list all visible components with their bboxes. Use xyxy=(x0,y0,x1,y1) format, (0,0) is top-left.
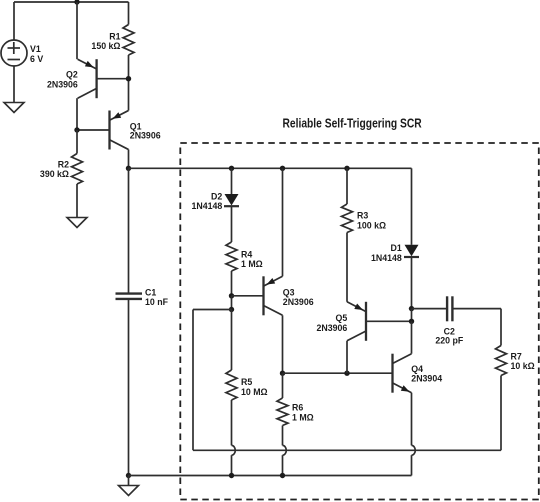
capacitor C2 xyxy=(447,296,452,321)
resistor R4 xyxy=(226,242,237,271)
diode D1 xyxy=(404,245,419,257)
label Q5 2N3906 xyxy=(316,313,347,333)
wire Q2 emitter lead xyxy=(76,2,78,59)
wire Q3 emitter lead xyxy=(282,168,284,276)
svg-text:R6: R6 xyxy=(292,403,303,413)
voltage source V1 xyxy=(1,40,27,66)
wire Q5 collector lead xyxy=(346,341,348,373)
svg-text:D1: D1 xyxy=(391,243,402,253)
label D1 1N4148 xyxy=(371,243,402,263)
svg-text:1 MΩ: 1 MΩ xyxy=(241,259,263,269)
svg-text:Q3: Q3 xyxy=(283,288,295,298)
node Q5 base junction xyxy=(409,319,414,324)
label Q1 2N3906 xyxy=(130,121,161,140)
node R6 top junction xyxy=(280,371,285,376)
svg-text:220 pF: 220 pF xyxy=(435,336,463,346)
label R7 10k xyxy=(511,352,535,372)
svg-text:R7: R7 xyxy=(511,352,522,362)
wire V1 top lead xyxy=(13,2,15,40)
transistor Q5 xyxy=(347,302,366,341)
node loop tap junction xyxy=(229,307,234,312)
transistor Q1 xyxy=(110,111,129,150)
node Q2 base junction xyxy=(126,76,131,81)
label Q4 2N3904 xyxy=(411,364,442,384)
label C1 10nF xyxy=(145,288,169,308)
svg-text:R3: R3 xyxy=(357,211,368,221)
node R5 ground junction xyxy=(229,473,234,478)
label R6 1M xyxy=(292,403,314,423)
label R1 150k xyxy=(91,32,120,52)
wire Q4 emitter to ground bus xyxy=(411,393,413,476)
wire R2 top lead xyxy=(76,130,78,154)
wire Q2 base to R1 node xyxy=(97,78,129,80)
wire R3 top lead xyxy=(346,168,348,204)
capacitor C1 xyxy=(116,294,143,299)
svg-text:R1: R1 xyxy=(109,32,120,42)
label Q2 2N3906 xyxy=(47,70,78,90)
label R5 10M xyxy=(241,377,268,397)
svg-text:1N4148: 1N4148 xyxy=(371,253,402,263)
svg-text:10 kΩ: 10 kΩ xyxy=(511,361,535,371)
wire C1 bottom lead xyxy=(128,300,130,476)
node bus D2 tap xyxy=(229,166,234,171)
svg-text:2N3906: 2N3906 xyxy=(316,323,347,333)
svg-text:390 kΩ: 390 kΩ xyxy=(40,169,69,179)
node bus Q3 tap xyxy=(280,166,285,171)
wire C2 left lead xyxy=(412,308,447,310)
wire loop bottom horizontal xyxy=(193,449,501,451)
svg-text:1N4148: 1N4148 xyxy=(191,201,222,211)
wire D2 to R4 xyxy=(231,206,233,242)
node C2 tap xyxy=(409,306,414,311)
wire loop tap left xyxy=(193,309,232,311)
wire Q4 base horizontal xyxy=(283,372,393,374)
svg-text:6 V: 6 V xyxy=(30,54,43,64)
ground (below R2) xyxy=(67,218,87,228)
label D2 1N4148 xyxy=(191,191,222,211)
SCR block dashed border xyxy=(180,143,539,500)
wire C2 node to Q5 base node xyxy=(411,309,413,322)
resistor R3 xyxy=(342,204,353,233)
wire D2 anode lead xyxy=(231,168,233,194)
node R6 ground junction xyxy=(280,473,285,478)
label R4 1M xyxy=(241,250,263,270)
label Q3 2N3906 xyxy=(283,288,314,308)
svg-text:1 MΩ: 1 MΩ xyxy=(292,412,314,422)
svg-text:C1: C1 xyxy=(145,288,156,298)
wire top rail xyxy=(14,1,129,3)
svg-text:R4: R4 xyxy=(241,250,252,260)
wire Q3 collector lead xyxy=(282,315,284,373)
label R2 390k xyxy=(40,160,69,180)
resistor R1 xyxy=(123,25,134,56)
svg-text:R2: R2 xyxy=(58,160,69,170)
node bus R3 tap xyxy=(344,166,349,171)
transistor Q4 xyxy=(393,354,412,393)
transistor Q3 xyxy=(264,276,283,315)
svg-text:2N3904: 2N3904 xyxy=(411,374,442,384)
wire bottom ground bus xyxy=(129,475,412,477)
wire R3 to Q5 emitter xyxy=(346,233,348,302)
svg-text:R5: R5 xyxy=(241,377,252,387)
resistor R2 xyxy=(72,154,83,185)
wire R5 to ground bus xyxy=(231,400,233,476)
node Q3 base junction xyxy=(229,293,234,298)
wire Q5 base node to Q4 collector xyxy=(411,321,413,353)
label V1 6V xyxy=(30,44,43,64)
svg-text:150 kΩ: 150 kΩ xyxy=(91,41,120,51)
wire Q5 base link xyxy=(366,320,412,322)
resistor R5 xyxy=(226,370,237,400)
svg-text:2N3906: 2N3906 xyxy=(47,80,78,90)
wire loop left vertical xyxy=(192,310,194,451)
wire V1 to ground xyxy=(13,66,15,103)
svg-text:Q2: Q2 xyxy=(66,70,78,80)
svg-text:100 kΩ: 100 kΩ xyxy=(357,220,386,230)
svg-text:10 MΩ: 10 MΩ xyxy=(241,387,268,397)
node main bus left xyxy=(126,166,131,171)
svg-text:Reliable Self-Triggering SCR: Reliable Self-Triggering SCR xyxy=(283,116,423,131)
resistor R6 xyxy=(277,398,288,426)
svg-text:D2: D2 xyxy=(211,191,222,201)
wire R2 to ground xyxy=(76,184,78,218)
svg-text:2N3906: 2N3906 xyxy=(283,297,314,307)
wire base node to loop tap xyxy=(231,296,233,310)
wire R4 to Q3 base node xyxy=(231,271,233,296)
wire R1 bottom to Q1 emitter xyxy=(128,55,130,111)
wire Q2 collector lead xyxy=(76,98,78,130)
svg-text:Q5: Q5 xyxy=(336,313,348,323)
wire R7 bottom lead xyxy=(500,376,502,451)
wire hop Q4 emitter over loop xyxy=(412,445,416,455)
svg-text:Q4: Q4 xyxy=(411,364,423,374)
svg-text:V1: V1 xyxy=(30,44,41,54)
wire Q1 base link xyxy=(77,129,110,131)
node Q1 base junction xyxy=(74,127,79,132)
wire R6 to ground bus xyxy=(282,426,284,476)
wire bus corner to D1 xyxy=(411,168,413,245)
svg-text:2N3906: 2N3906 xyxy=(130,130,161,140)
label C2 220pF xyxy=(435,326,463,345)
node ground bus left xyxy=(126,473,131,478)
wire hop R6 over loop xyxy=(283,445,287,455)
wire Q1 collector lead xyxy=(128,150,130,169)
resistor R7 xyxy=(496,346,507,376)
wire hop R5 over loop xyxy=(232,445,236,455)
wire C2 right lead xyxy=(454,308,502,310)
wire ground stub xyxy=(128,476,130,486)
wire D1 cathode lead xyxy=(411,257,413,309)
ground (below V1) xyxy=(4,103,24,113)
node top rail junction xyxy=(74,0,79,5)
ground (bottom) xyxy=(119,486,139,496)
diode D2 xyxy=(224,194,239,206)
wire R1 top lead xyxy=(128,2,130,25)
node Q4 base junction xyxy=(344,371,349,376)
wire main horizontal bus xyxy=(129,167,412,169)
svg-text:10 nF: 10 nF xyxy=(145,297,169,307)
label R3 100k xyxy=(357,211,386,231)
wire loop tap to R5 xyxy=(231,310,233,371)
wire Q3 base link xyxy=(232,295,264,297)
wire R7 top lead xyxy=(500,309,502,346)
wire C1 top lead xyxy=(128,168,130,292)
transistor Q2 xyxy=(78,59,97,98)
wire R6 top stub xyxy=(282,373,284,398)
